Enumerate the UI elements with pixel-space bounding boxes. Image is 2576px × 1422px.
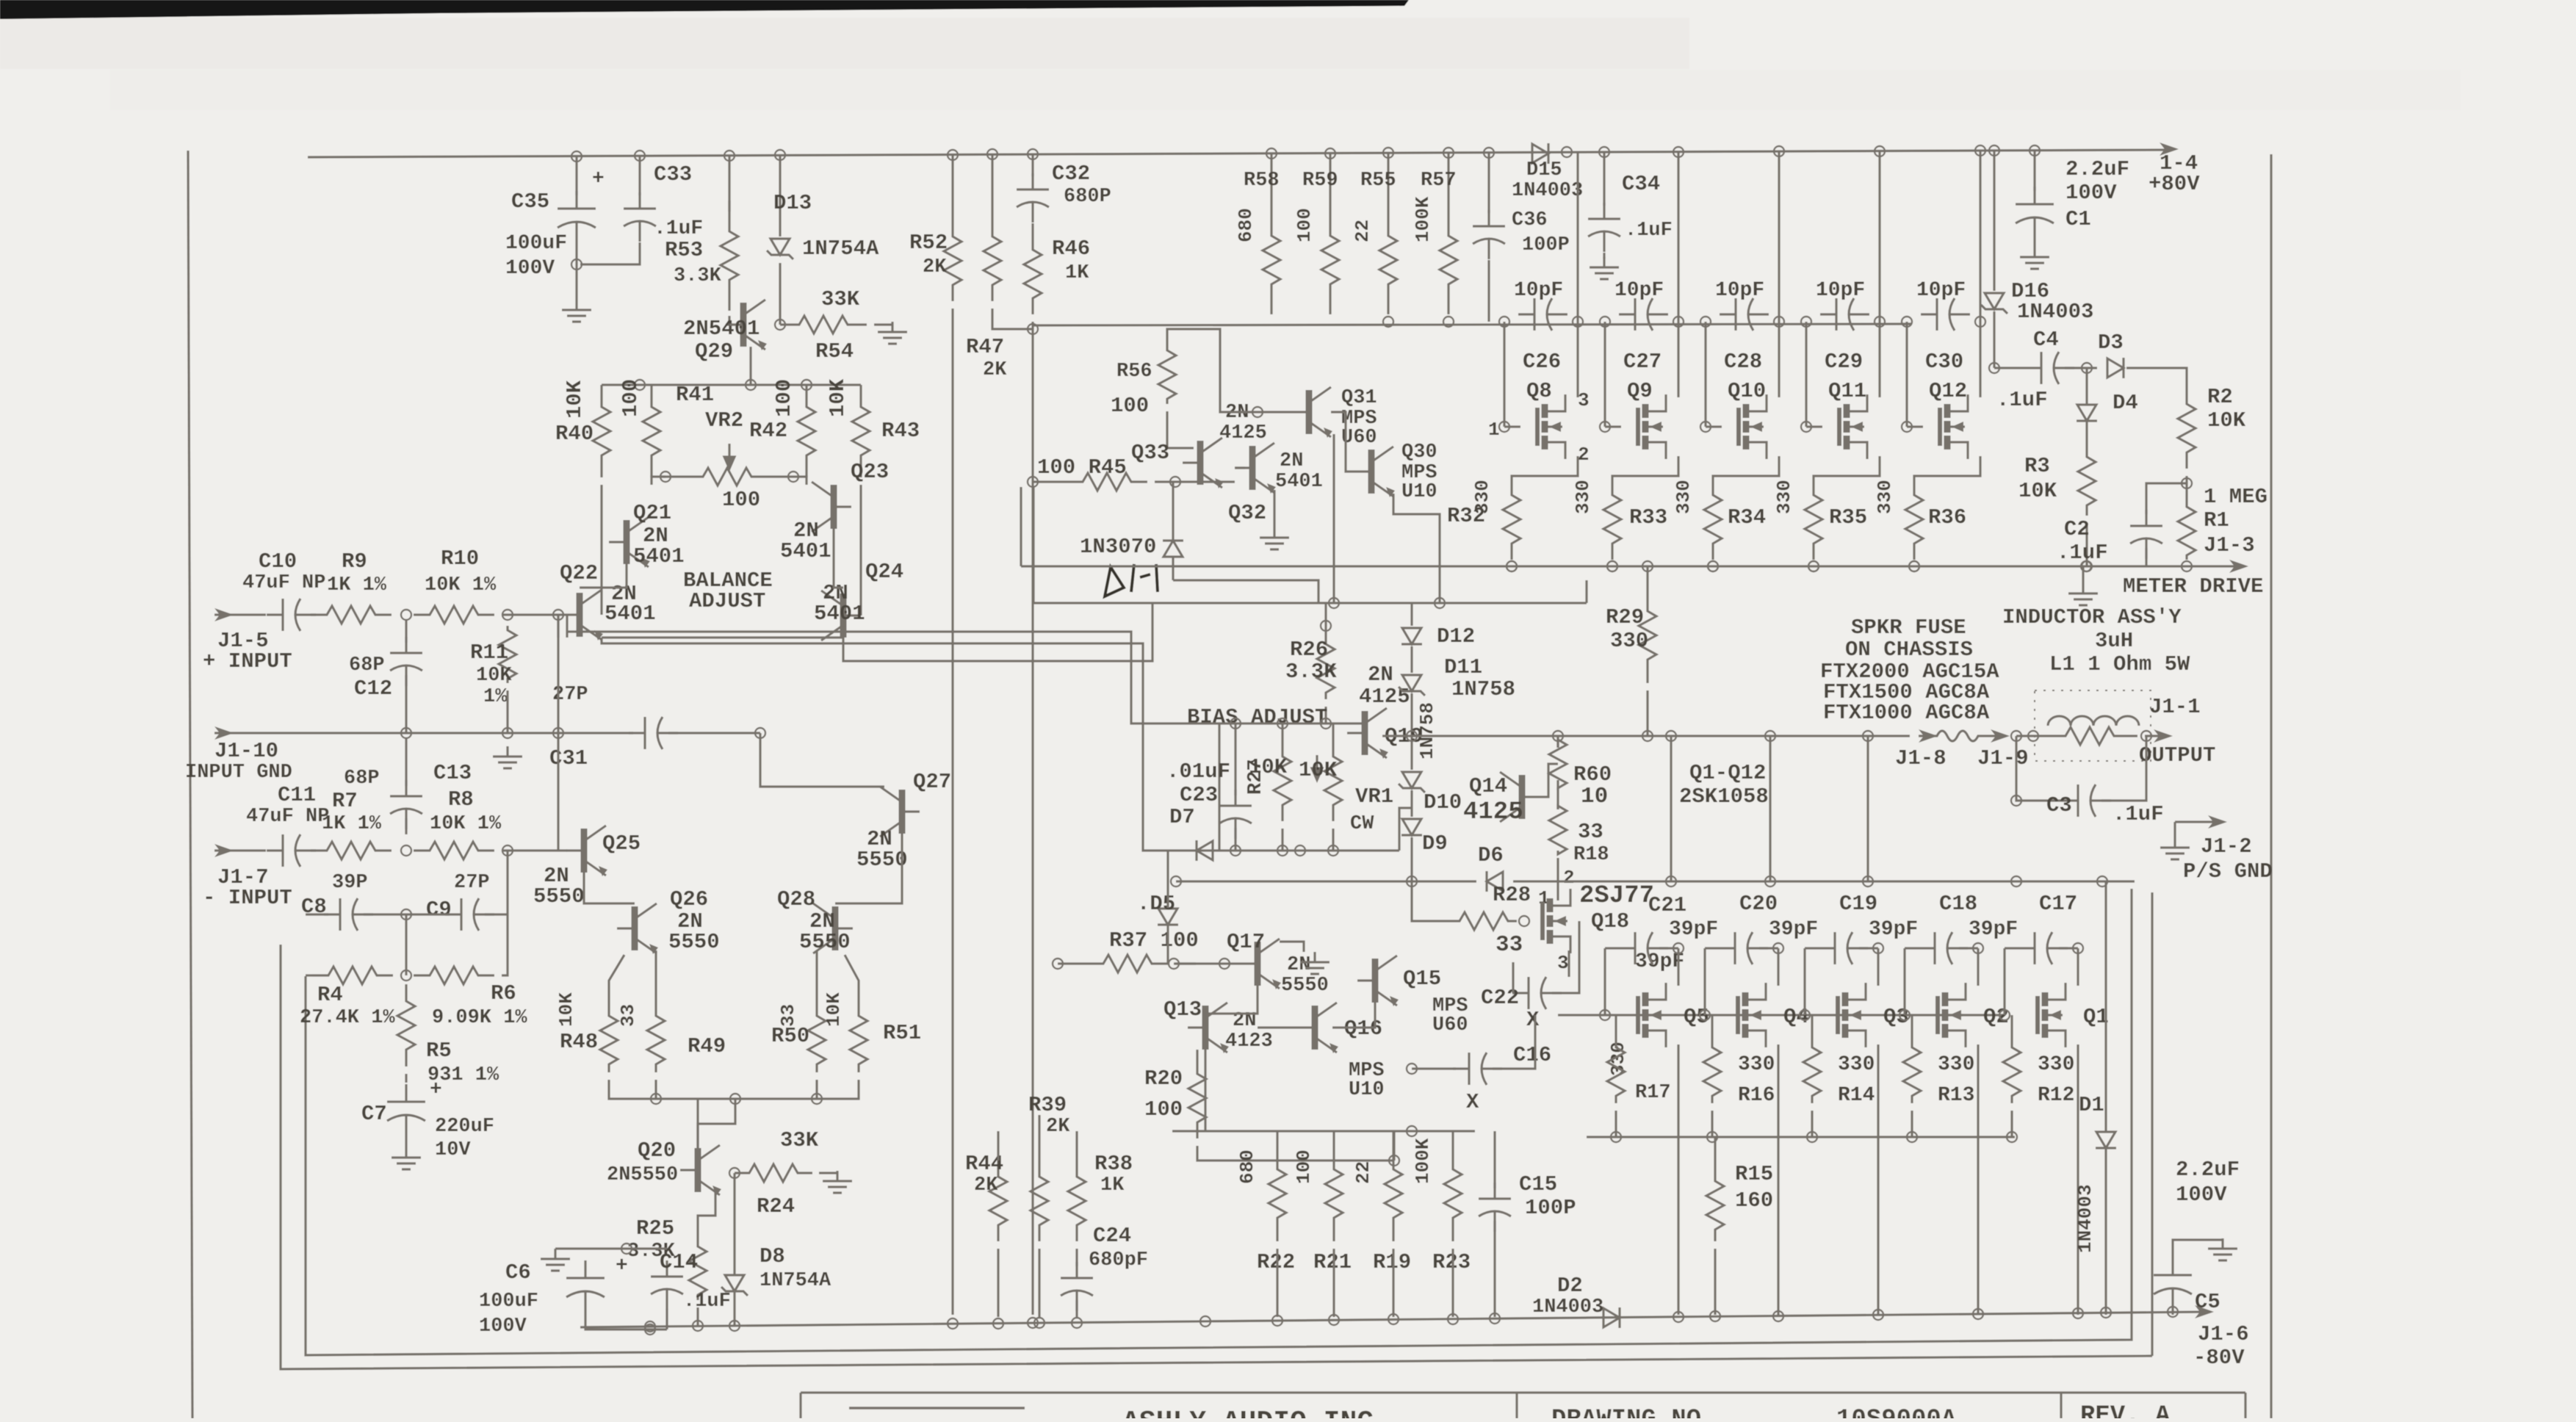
svg-text:Q22: Q22 bbox=[560, 561, 598, 585]
transistor Q33 bbox=[1183, 438, 1224, 488]
rail 1496 bbox=[609, 1080, 859, 1099]
resistor R2 bbox=[2178, 388, 2196, 469]
capacitor C16 bbox=[1453, 1053, 1502, 1085]
junction -80V bus bbox=[1072, 1318, 1082, 1328]
svg-text:2.2uF: 2.2uF bbox=[2066, 157, 2129, 181]
junction meter rail bbox=[1909, 561, 1919, 571]
svg-text:Q8: Q8 bbox=[1526, 379, 1552, 403]
wire C19 left bbox=[1805, 947, 1819, 949]
svg-text:+: + bbox=[592, 167, 605, 190]
junction Q17 base bbox=[1219, 959, 1230, 969]
junction 1580 bbox=[1389, 1155, 1399, 1166]
wire Q11 gate bbox=[1806, 425, 1822, 427]
wire R60-R18 bbox=[1556, 787, 1559, 809]
junction -80V bus bbox=[645, 1321, 655, 1332]
wire D16 top bbox=[1993, 151, 1995, 291]
svg-text:R3: R3 bbox=[2024, 454, 2050, 478]
junction Q29/R54 bbox=[775, 320, 785, 330]
capacitor C15 bbox=[1479, 1183, 1511, 1232]
wire Q9 source bbox=[1612, 456, 1678, 479]
wire R10 to Q22 bbox=[502, 613, 562, 616]
junction Q4 gate bbox=[1700, 1010, 1710, 1020]
resistor R47a bbox=[984, 220, 1001, 301]
svg-text:Q18: Q18 bbox=[1591, 909, 1629, 934]
resistor R10 bbox=[414, 606, 494, 624]
junction -80V bus bbox=[1773, 1311, 1783, 1321]
diode D9 bbox=[1401, 819, 1422, 835]
junction R37b bbox=[1169, 959, 1179, 969]
svg-text:D2: D2 bbox=[1557, 1274, 1583, 1298]
diode D12 bbox=[1401, 628, 1422, 644]
junction C8/C9 bbox=[401, 909, 411, 920]
svg-text:Q17: Q17 bbox=[1227, 930, 1265, 954]
title block divider 2 bbox=[2060, 1393, 2062, 1418]
svg-text:C19: C19 bbox=[1839, 892, 1877, 916]
wire R42 to VR2 bbox=[793, 477, 807, 485]
wire R13 bottom bbox=[1911, 1111, 1913, 1137]
svg-text:R20: R20 bbox=[1144, 1066, 1183, 1091]
svg-text:Q33: Q33 bbox=[1131, 441, 1169, 465]
svg-text:10V: 10V bbox=[435, 1139, 471, 1161]
ground C35 bbox=[562, 300, 591, 322]
svg-text:330: 330 bbox=[1607, 1042, 1629, 1076]
junction 821b bbox=[1435, 598, 1445, 608]
junction C14 bottom bbox=[645, 1324, 655, 1335]
svg-text:DRAWING NO.: DRAWING NO. bbox=[1551, 1406, 1716, 1418]
junction C4/D3 bbox=[2082, 363, 2092, 373]
wire bias box left bbox=[1218, 723, 1220, 851]
outer frame bbox=[281, 945, 2152, 1369]
wire column down to -80V bbox=[1031, 482, 1033, 1315]
wire D10-D9 bbox=[1410, 790, 1413, 817]
resistor R3 bbox=[2078, 447, 2096, 516]
zener diode D16 bbox=[1981, 293, 2007, 314]
junction L1 left bbox=[2028, 731, 2038, 741]
wire C6/C14 top bbox=[585, 1247, 667, 1249]
diode D3 bbox=[2107, 358, 2124, 378]
ground input bbox=[493, 746, 522, 768]
svg-text:R35: R35 bbox=[1829, 505, 1867, 530]
svg-text:R6: R6 bbox=[491, 981, 516, 1006]
svg-text:2SJ77: 2SJ77 bbox=[1579, 882, 1654, 910]
svg-text:R54: R54 bbox=[815, 339, 854, 364]
resistor 1 Ohm 5W bbox=[2042, 727, 2137, 745]
wire R5 to C7 bbox=[405, 1074, 407, 1083]
svg-text:J1-10: J1-10 bbox=[214, 739, 278, 763]
svg-text:.1uF: .1uF bbox=[1996, 388, 2048, 412]
svg-text:C14: C14 bbox=[660, 1250, 698, 1274]
svg-text:-80V: -80V bbox=[2193, 1346, 2245, 1370]
svg-text:9.09K 1%: 9.09K 1% bbox=[432, 1007, 527, 1029]
junction output rail bbox=[1553, 731, 1563, 741]
wire R29 bottom bbox=[1646, 690, 1648, 736]
wire D13 top bbox=[779, 155, 781, 237]
capacitor C6 bbox=[566, 1260, 605, 1309]
svg-text:FTX1000 AGC8A: FTX1000 AGC8A bbox=[1823, 701, 1990, 725]
svg-text:27.4K 1%: 27.4K 1% bbox=[300, 1007, 395, 1029]
resistor R4 bbox=[312, 967, 393, 984]
MOSFET Q12 bbox=[1940, 394, 1968, 459]
junction on +80V bus bbox=[1484, 148, 1494, 158]
wire Q12 gate riser bbox=[1905, 322, 1908, 427]
wire to L1 bbox=[2016, 735, 2042, 737]
svg-text:1N758: 1N758 bbox=[1451, 677, 1515, 701]
MOSFET Q8 bbox=[1537, 394, 1565, 459]
svg-text:4125: 4125 bbox=[1359, 685, 1410, 709]
junction on +80V bus bbox=[1383, 148, 1393, 158]
resistor R29 bbox=[1639, 588, 1656, 683]
wire C18 left bbox=[1905, 947, 1919, 949]
-80V bottom bus bbox=[580, 1312, 2207, 1327]
wire C14 bottom bbox=[665, 1309, 668, 1329]
junction -80V bus bbox=[1272, 1315, 1282, 1326]
junction meter rail bbox=[1507, 561, 1517, 571]
junction rail1200 bbox=[1407, 876, 1417, 887]
junction -80V bus bbox=[729, 1321, 740, 1331]
rail meter drive bbox=[1021, 565, 2242, 567]
svg-text:4125: 4125 bbox=[1463, 798, 1523, 826]
wire R45 left bbox=[1033, 480, 1067, 483]
wire C35 top bbox=[575, 156, 577, 195]
svg-text:C35: C35 bbox=[511, 190, 549, 214]
svg-text:10pF: 10pF bbox=[1514, 279, 1563, 302]
capacitor C28 bbox=[1720, 298, 1769, 331]
transistor Q20 bbox=[680, 1145, 721, 1196]
wire Q20 emitter bbox=[698, 1192, 715, 1241]
svg-text:100P: 100P bbox=[1522, 234, 1570, 256]
junction bias bottom bbox=[1277, 845, 1288, 856]
junction -80V bus bbox=[1028, 1318, 1038, 1328]
wire Q8 gate riser bbox=[1503, 322, 1505, 427]
svg-text:680P: 680P bbox=[1064, 186, 1111, 208]
junction C27 right bbox=[1673, 317, 1684, 327]
resistor R52 bbox=[944, 220, 962, 301]
wire feedback lower bbox=[567, 632, 1219, 723]
wire Q1 drain down bbox=[2077, 1044, 2079, 1315]
capacitor C30 bbox=[1921, 298, 1970, 331]
wire R53 top bbox=[728, 156, 730, 212]
junction L1 right bbox=[2141, 731, 2151, 741]
wire D5 bottom bbox=[1166, 925, 1169, 964]
resistor R48 bbox=[600, 1008, 618, 1072]
resistor R13 bbox=[1903, 1040, 1921, 1103]
wire riser 1407 bbox=[1032, 487, 1034, 603]
wire C36 bottom bbox=[1487, 260, 1490, 322]
wire D5 top bbox=[1166, 851, 1169, 908]
wire D4-R3 bbox=[2085, 422, 2088, 447]
svg-text:R27: R27 bbox=[1245, 759, 1267, 795]
svg-text:R15: R15 bbox=[1735, 1162, 1773, 1186]
black scanner bar bbox=[0, 0, 1409, 19]
wire R15 bottom bbox=[1714, 1249, 1716, 1315]
wire Q9 drain column bbox=[1677, 152, 1679, 397]
svg-text:100 R45: 100 R45 bbox=[1037, 455, 1127, 480]
wire Q12 drain column bbox=[1979, 151, 1981, 397]
resistor R43 bbox=[852, 385, 870, 477]
svg-text:.1uF: .1uF bbox=[1625, 220, 1673, 242]
svg-text:R55: R55 bbox=[1360, 170, 1396, 192]
wire R26 top bbox=[1324, 603, 1327, 638]
wire C23 top bbox=[1234, 723, 1236, 795]
junction R3/meter rail bbox=[2082, 561, 2092, 571]
svg-text:R41: R41 bbox=[676, 383, 714, 407]
wire R56 bottom bbox=[1167, 411, 1194, 448]
junction R24 bbox=[729, 1168, 740, 1178]
svg-text:100: 100 bbox=[1144, 1097, 1183, 1122]
svg-text:Q25: Q25 bbox=[602, 831, 641, 856]
junction C21 right bbox=[1673, 943, 1684, 953]
svg-text:Q24: Q24 bbox=[865, 560, 903, 584]
wire R16 top bbox=[1711, 1015, 1713, 1040]
svg-text:33: 33 bbox=[1496, 932, 1523, 958]
svg-text:Q20: Q20 bbox=[638, 1138, 676, 1163]
svg-text:1N754A: 1N754A bbox=[802, 237, 879, 261]
ground C5 bbox=[2208, 1238, 2237, 1260]
junction on +80V bus bbox=[1673, 147, 1684, 157]
svg-text:R2: R2 bbox=[2207, 385, 2233, 409]
svg-text:D15: D15 bbox=[1526, 159, 1562, 181]
svg-text:+: + bbox=[616, 1255, 628, 1277]
svg-text:39P: 39P bbox=[332, 872, 368, 894]
wire R51 top bbox=[845, 955, 859, 1008]
transistor Q16 bbox=[1297, 1003, 1338, 1053]
wire Q1 gate riser bbox=[2003, 948, 2005, 1015]
junction Q1 gate bbox=[1999, 1010, 2010, 1020]
resistor R41 bbox=[643, 385, 660, 477]
wire Q23-Q24 bbox=[834, 529, 843, 588]
svg-text:R52: R52 bbox=[909, 231, 948, 255]
wire output bbox=[2145, 735, 2165, 737]
wire C34 top bbox=[1603, 152, 1605, 206]
wire R60 top bbox=[1556, 736, 1559, 748]
svg-text:R38: R38 bbox=[1094, 1152, 1133, 1176]
wire R22 bottom bbox=[1276, 1249, 1278, 1317]
wire D12-D11 bbox=[1410, 646, 1413, 673]
junction -80V bus bbox=[1710, 1311, 1720, 1321]
svg-text:10K 1%: 10K 1% bbox=[425, 574, 497, 596]
junction R33 bottom bbox=[1607, 561, 1617, 571]
ground Q32 bbox=[1260, 527, 1289, 549]
svg-text:R40: R40 bbox=[555, 422, 594, 446]
svg-text:2SK1058: 2SK1058 bbox=[1679, 784, 1769, 809]
svg-text:R28: R28 bbox=[1493, 883, 1531, 907]
svg-text:R37 100: R37 100 bbox=[1109, 928, 1199, 953]
junction R32 bottom bbox=[1507, 561, 1517, 571]
junction on +80V bus bbox=[1028, 149, 1038, 159]
junction R26 bbox=[1321, 621, 1331, 631]
wire R57 top bbox=[1447, 153, 1449, 206]
svg-text:2N: 2N bbox=[1368, 663, 1393, 687]
resistor R23 bbox=[1444, 1146, 1462, 1241]
svg-text:R48: R48 bbox=[560, 1030, 598, 1054]
junction gate rail Q8 bbox=[1499, 317, 1509, 327]
wire D13 bottom bbox=[779, 263, 781, 325]
wire Q3 drain down bbox=[1877, 1044, 1879, 1315]
svg-text:D9: D9 bbox=[1422, 831, 1448, 856]
resistor R55 bbox=[1379, 206, 1397, 314]
arrowhead +80V bbox=[2160, 142, 2179, 156]
MOSFET Q9 bbox=[1638, 394, 1666, 459]
svg-text:33: 33 bbox=[617, 1004, 639, 1027]
svg-text:D7: D7 bbox=[1169, 805, 1195, 829]
wire C22 left bbox=[1512, 962, 1514, 993]
arrowhead J1-2 bbox=[2208, 815, 2227, 829]
transistor Q17 bbox=[1240, 939, 1281, 989]
wire Q17-Q13 bbox=[1205, 986, 1258, 1014]
svg-text:330: 330 bbox=[1874, 480, 1896, 514]
svg-text:D3: D3 bbox=[2098, 331, 2124, 355]
wire R50 top bbox=[815, 950, 818, 1008]
wire stub bbox=[506, 849, 508, 851]
wire col 2275 bbox=[1670, 736, 1672, 881]
svg-text:C17: C17 bbox=[2039, 892, 2077, 916]
svg-text:100: 100 bbox=[772, 379, 796, 417]
wire R58 top bbox=[1270, 154, 1272, 206]
junction Q8 gate bbox=[1499, 422, 1509, 432]
wire R17 top bbox=[1614, 1015, 1617, 1040]
wire Q14 collector bbox=[1540, 764, 1558, 797]
wire Q10 gate riser bbox=[1704, 322, 1706, 427]
capacitor C3 bbox=[2062, 784, 2111, 817]
arrowhead J1-9 bbox=[1991, 729, 2010, 743]
svg-text:1 MEG: 1 MEG bbox=[2204, 485, 2267, 509]
transistor Q29 bbox=[726, 300, 767, 350]
capacitor C4 bbox=[2025, 352, 2074, 384]
junction Q22 base bbox=[553, 610, 563, 620]
wire C5 bottom bbox=[2171, 1306, 2173, 1315]
junction C18 right bbox=[1973, 943, 1983, 953]
MOSFET Q4 bbox=[1738, 983, 1766, 1047]
svg-text:R23: R23 bbox=[1432, 1250, 1471, 1274]
svg-text:5550: 5550 bbox=[668, 930, 720, 954]
wire R52 column down bbox=[951, 308, 953, 1315]
wire R49 bottom bbox=[654, 1080, 657, 1099]
svg-text:J1-3: J1-3 bbox=[2204, 533, 2255, 557]
wire D1 top bbox=[2104, 881, 2107, 1131]
wire R49 top bbox=[654, 950, 657, 1008]
diode D15 bbox=[1532, 143, 1548, 164]
wire Q32 base bbox=[1235, 466, 1245, 469]
resistor R39 bbox=[1031, 1161, 1048, 1241]
wire R8 to Q25 bbox=[502, 849, 567, 851]
svg-text:Q12: Q12 bbox=[1929, 379, 1967, 403]
svg-text:47uF NP: 47uF NP bbox=[242, 572, 325, 594]
diode 1N3070 bbox=[1163, 541, 1183, 557]
title block left bbox=[799, 1393, 801, 1418]
svg-text:10S9000A: 10S9000A bbox=[1836, 1406, 1957, 1418]
svg-text:100: 100 bbox=[1294, 208, 1316, 242]
wire R52 top bbox=[951, 155, 953, 220]
svg-text:C30: C30 bbox=[1925, 350, 1963, 374]
junction bias bottom bbox=[1230, 845, 1241, 856]
junction C31 right bbox=[755, 728, 765, 738]
svg-text:5550: 5550 bbox=[799, 930, 851, 954]
svg-text:100: 100 bbox=[1293, 1149, 1315, 1184]
svg-text:10K: 10K bbox=[555, 992, 577, 1027]
resistor R21 bbox=[1325, 1146, 1343, 1241]
svg-text:P/S GND: P/S GND bbox=[2183, 859, 2273, 884]
svg-text:C12: C12 bbox=[354, 676, 392, 701]
junction R11/gnd line bbox=[502, 728, 513, 738]
svg-text:C1: C1 bbox=[2066, 207, 2091, 231]
ground C7 bbox=[392, 1147, 421, 1169]
wire Q29 base bbox=[729, 323, 736, 325]
wire Q10 gate bbox=[1706, 425, 1722, 427]
ground J1-2 bbox=[2160, 837, 2190, 859]
speaker fuse bbox=[1919, 731, 1996, 741]
inductor L1 bbox=[2048, 716, 2139, 726]
capacitor C10 bbox=[267, 599, 316, 631]
svg-text:OUTPUT: OUTPUT bbox=[2139, 743, 2215, 768]
svg-text:39pF: 39pF bbox=[1969, 918, 2018, 941]
svg-text:4123: 4123 bbox=[1225, 1031, 1273, 1053]
rail mid 821 bbox=[1033, 602, 1587, 604]
svg-text:22: 22 bbox=[1352, 1161, 1374, 1184]
svg-text:2N: 2N bbox=[1280, 450, 1303, 472]
svg-text:R14: R14 bbox=[1838, 1084, 1875, 1107]
junction VR2 right bbox=[788, 472, 798, 482]
wire D11-D10 bbox=[1410, 693, 1413, 770]
junction -80V bus bbox=[2168, 1307, 2178, 1317]
junction meter rail bbox=[1708, 561, 1718, 571]
junction R45/Q32 bbox=[1170, 477, 1180, 487]
svg-text:X: X bbox=[1526, 1008, 1540, 1032]
svg-text:1: 1 bbox=[1488, 419, 1500, 441]
wire C13 top bbox=[405, 739, 407, 786]
junction on +80V bus bbox=[1989, 145, 1999, 156]
wire C19 right bbox=[1859, 947, 1878, 949]
junction meter rail bbox=[1808, 561, 1819, 571]
junction rail1200 bbox=[1863, 876, 1873, 887]
resistor R35 bbox=[1805, 479, 1822, 560]
wire R13 top bbox=[1911, 1015, 1913, 1040]
resistor R20 bbox=[1188, 1058, 1206, 1138]
junction Q9 gate bbox=[1600, 422, 1610, 432]
svg-text:100K: 100K bbox=[1412, 196, 1434, 242]
resistor R9 bbox=[311, 606, 392, 624]
wire Q22-Q24 emitters bbox=[602, 636, 843, 638]
capacitor C34 bbox=[1588, 203, 1620, 252]
wire Q31 collector down bbox=[1332, 434, 1335, 603]
junction Q3 gate bbox=[1800, 1010, 1810, 1020]
+80V top bus bbox=[308, 150, 2173, 157]
wire R3 bottom bbox=[2085, 523, 2088, 566]
svg-text:10pF: 10pF bbox=[1816, 279, 1865, 302]
wire R19 bottom bbox=[1392, 1249, 1394, 1317]
wire R15 top bbox=[1714, 1137, 1716, 1169]
svg-text:2N5401: 2N5401 bbox=[683, 317, 760, 341]
resistor R33 bbox=[1603, 479, 1621, 560]
svg-text:2N5550: 2N5550 bbox=[607, 1164, 678, 1186]
svg-text:680pF: 680pF bbox=[1089, 1249, 1148, 1271]
capacitor C13 bbox=[390, 780, 422, 829]
svg-text:1N4003: 1N4003 bbox=[1512, 180, 1583, 202]
resistor R16 bbox=[1703, 1040, 1721, 1103]
svg-text:C16: C16 bbox=[1513, 1043, 1551, 1067]
wire C6 gnd bbox=[555, 1247, 585, 1249]
wire C36 top bbox=[1487, 153, 1490, 213]
wire Q1 drain up bbox=[2077, 948, 2079, 986]
svg-text:C3: C3 bbox=[2046, 793, 2072, 818]
svg-text:10K: 10K bbox=[2018, 479, 2057, 503]
wire R39 top bbox=[1038, 1115, 1040, 1161]
transistor Q21 bbox=[609, 517, 650, 568]
svg-text:330: 330 bbox=[1838, 1053, 1875, 1076]
wire C20 left bbox=[1705, 947, 1719, 949]
junction Q18 gate bbox=[1519, 916, 1529, 926]
svg-text:100V: 100V bbox=[2176, 1183, 2227, 1207]
svg-text:D13: D13 bbox=[773, 191, 812, 215]
